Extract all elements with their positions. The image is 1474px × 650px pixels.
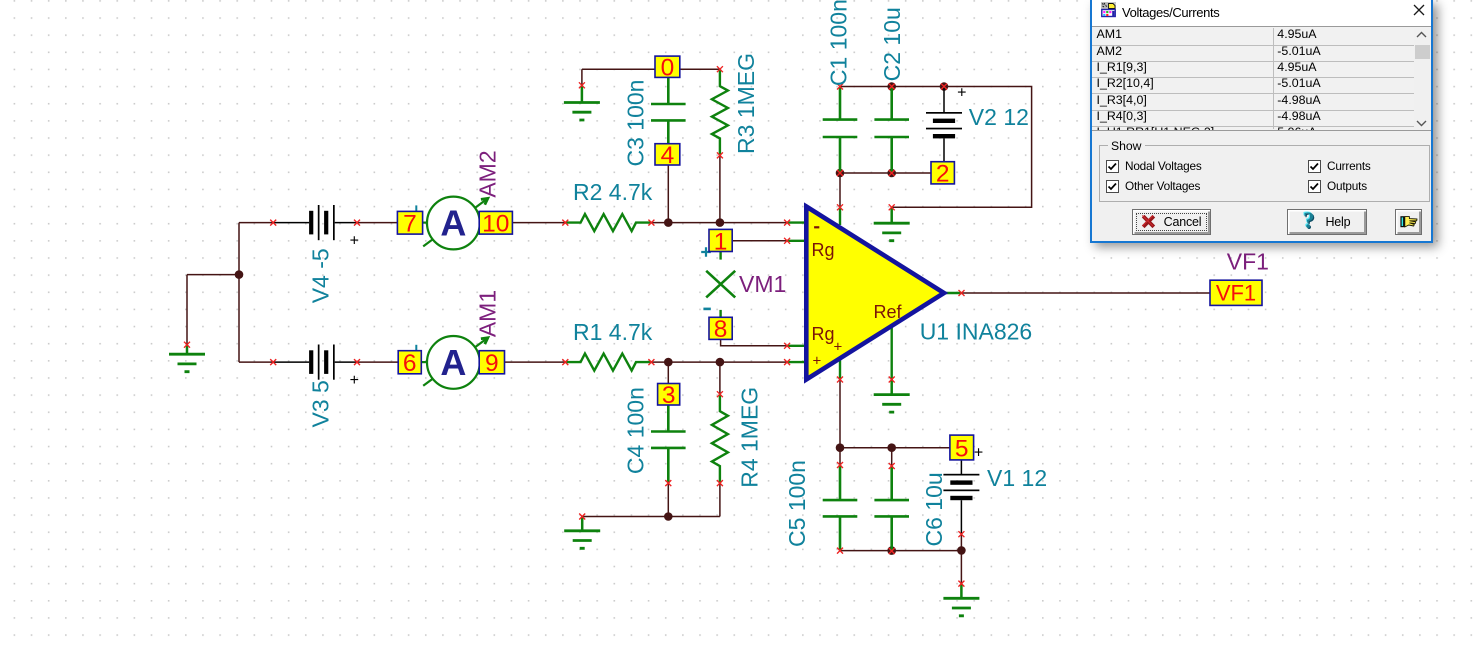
wire top row left (239, 222, 273, 224)
pin x C5 top (837, 462, 843, 468)
svg-text:9: 9 (485, 350, 499, 377)
checkbox Nodal Voltages (1106, 160, 1119, 173)
svg-text:8: 8 (714, 316, 728, 343)
pin x op-amp bottom supply (837, 377, 843, 383)
op-amp U1 INA826 triangle (806, 207, 944, 380)
pin x R2 right (648, 220, 654, 226)
svg-text:+: + (834, 339, 843, 356)
wire R1 to op-amp plus pin (651, 361, 787, 363)
junction R2/C3 node (664, 218, 673, 227)
op-amp plus pin stub (787, 361, 806, 363)
ammeter AM2 polarity tick (415, 205, 417, 211)
wire op-amp bottom supply down (839, 380, 841, 448)
pin x V3 left (270, 359, 276, 365)
pin x C6 bottom (889, 548, 895, 554)
svg-text:Ref: Ref (874, 302, 903, 322)
Cancel button (1132, 209, 1211, 235)
svg-text:A: A (440, 203, 466, 244)
svg-text:0: 0 (661, 55, 675, 82)
pin x op-amp output (959, 290, 965, 296)
pin x R3 bottom (717, 152, 723, 158)
wire box0 to left ground (582, 69, 655, 85)
svg-text:4: 4 (661, 142, 675, 169)
wire bottom row left (239, 361, 273, 363)
capacitor C3 (651, 77, 686, 143)
ground top right near op-amp (874, 207, 910, 240)
pin x R4 top (717, 391, 723, 397)
pin x C6 top (889, 463, 895, 469)
wire C5 stub (839, 448, 841, 465)
pin x op-amp Ref (889, 377, 895, 383)
node 3 box (658, 382, 680, 409)
wire box10 to R2 (512, 222, 565, 224)
voltage source V3 (273, 345, 357, 380)
pin x C1 top (837, 84, 843, 90)
checkbox Currents (1308, 160, 1321, 173)
op-amp output stub (944, 292, 962, 294)
svg-text:V4 -5: V4 -5 (308, 248, 334, 303)
junction supply rail C5 (836, 443, 845, 452)
pin x C2 bottom (889, 170, 895, 176)
pin x V2 plus (941, 84, 947, 90)
wire bottom-left rail (582, 516, 720, 518)
wire box9 to R1 (505, 361, 566, 363)
junction C1 bottom (836, 169, 845, 178)
ground left (169, 345, 205, 372)
pin x ground left (184, 342, 190, 348)
junction C6 bottom (887, 546, 896, 555)
voltmeter VM1 minus mark (703, 308, 710, 311)
node 2 box (931, 161, 954, 188)
dialog Voltages/Currents (1090, 0, 1433, 243)
ground below V1 (943, 584, 979, 616)
ammeter AM2 green stub (423, 222, 428, 224)
node 4 box (655, 142, 680, 169)
Help button (1287, 209, 1368, 235)
list scrollbar (1414, 28, 1430, 129)
voltage source V1 (943, 460, 979, 534)
wire mid rail to box2 (840, 172, 931, 174)
resistor R1 (565, 354, 651, 371)
voltmeter VM1 lead from box1 (719, 252, 721, 260)
pin x V1 bottom (958, 531, 964, 537)
op-amp Rg lower pin stub (787, 345, 806, 347)
wire node down to box3 (667, 362, 669, 383)
voltmeter VM1 cross symbol (706, 271, 735, 298)
pin x op-amp plus (784, 359, 790, 365)
wire C1 bottom to op-amp supply (839, 173, 841, 207)
svg-text:1: 1 (714, 228, 728, 255)
svg-text:C5 100n: C5 100n (784, 460, 810, 547)
wire top row battery to box7 (357, 222, 397, 224)
node 10 box (479, 211, 512, 238)
wire left vertical between rows (238, 223, 240, 363)
Show group box (1099, 145, 1430, 203)
op-amp top supply pin stub (839, 207, 841, 225)
pin x op-amp minus (784, 220, 790, 226)
wire bottom block rail (840, 550, 961, 552)
svg-text:6: 6 (403, 350, 417, 377)
svg-text:V3 5: V3 5 (308, 380, 334, 427)
dialog icon (1101, 2, 1117, 18)
svg-text:+: + (813, 353, 822, 370)
node 8 box (709, 316, 732, 343)
op-amp Ref pin stub (891, 324, 893, 380)
capacitor C2 (874, 88, 909, 174)
pin x V4 right (354, 220, 360, 226)
wire R4 to bottom rail (719, 483, 721, 516)
pin x V3 right (354, 359, 360, 365)
pin x C1 bottom (837, 170, 843, 176)
svg-text:+: + (350, 372, 359, 389)
capacitor C4 (651, 405, 686, 483)
wire node down to R4 (719, 362, 721, 394)
op-amp bottom supply pin stub (839, 360, 841, 380)
svg-text:+: + (957, 85, 966, 102)
node 0 box (655, 55, 680, 82)
svg-text:2: 2 (936, 161, 950, 188)
junction bottom-left rail (664, 512, 673, 521)
wire top supply rail (840, 87, 1032, 208)
wire box1 to op-amp Rg upper (732, 240, 787, 242)
svg-text:R3 1MEG: R3 1MEG (733, 53, 759, 154)
capacitor C5 (823, 465, 858, 551)
wire C4 to bottom rail (667, 483, 669, 516)
wire box4 down to node (667, 164, 669, 223)
dialog results list (1092, 26, 1431, 131)
svg-text:C6 10u: C6 10u (921, 472, 947, 546)
node 9 box (479, 350, 504, 377)
wire R2 to op-amp minus pin (651, 222, 787, 224)
svg-text:3: 3 (662, 382, 676, 409)
wire V1 bottom stubs (960, 534, 962, 583)
pin x ground top right (889, 204, 895, 210)
wire box0 to R3 top (680, 68, 720, 70)
svg-text:5: 5 (955, 435, 969, 462)
svg-text:C4 100n: C4 100n (623, 387, 649, 474)
svg-text:C1 100n: C1 100n (826, 0, 852, 86)
pin x op-amp Rg lower (784, 343, 790, 349)
svg-text:R1 4.7k: R1 4.7k (573, 319, 653, 345)
ground at op-amp Ref pin (874, 380, 910, 413)
capacitor C6 (874, 466, 909, 551)
pin x C2 top (889, 84, 895, 90)
ground bottom-left rail (564, 517, 600, 549)
wire op-amp output to VF1 (962, 292, 1211, 294)
pin x op-amp top supply (837, 204, 843, 210)
svg-text:U1 INA826: U1 INA826 (920, 319, 1033, 345)
voltmeter VM1 lead to box8 (719, 310, 721, 317)
junction R1/C4 node (664, 358, 673, 367)
svg-text:V2 12: V2 12 (969, 104, 1029, 130)
svg-text:VF1: VF1 (1216, 281, 1256, 306)
pin x C5 bottom (837, 548, 843, 554)
junction V2 plus (940, 82, 949, 91)
node 6 box (398, 350, 421, 377)
pin x ground V1 (958, 581, 964, 587)
wire C6 stub (891, 448, 893, 466)
junction left branch (235, 270, 244, 279)
voltage source V4 (273, 205, 357, 240)
junction R4 node (716, 358, 725, 367)
junction R3 node (716, 218, 725, 227)
ammeter AM1 green stub (421, 361, 427, 363)
pin x R3 top (717, 66, 723, 72)
ammeter AM1 polarity tick (415, 345, 417, 351)
svg-text:Rg: Rg (812, 240, 835, 260)
ground near box0 (564, 85, 600, 120)
pin x R2 left (562, 220, 568, 226)
dialog close button (1412, 3, 1426, 17)
node 5 box (950, 435, 974, 462)
wire R3 down to node (719, 155, 721, 222)
output VF1 box (1210, 280, 1262, 306)
svg-text:AM2: AM2 (475, 150, 501, 197)
svg-text:VF1: VF1 (1227, 249, 1269, 275)
op-amp minus pin stub (787, 221, 806, 223)
junction V1 bottom (957, 546, 966, 555)
junction C2 top (887, 82, 896, 91)
pin x R1 left (562, 359, 568, 365)
ammeter AM1 (423, 336, 488, 389)
pin x ground box0 (579, 82, 585, 88)
pin x R1 right (648, 359, 654, 365)
op-amp Rg upper pin stub (787, 240, 806, 242)
svg-text:10: 10 (482, 211, 509, 238)
op-amp minus pin label (814, 226, 819, 228)
svg-text:C2 10u: C2 10u (879, 7, 905, 81)
svg-text:A: A (440, 342, 466, 383)
capacitor C1 (823, 88, 858, 174)
svg-text:R4 1MEG: R4 1MEG (736, 387, 762, 488)
pin x R4 bottom (717, 480, 723, 486)
pin x op-amp Rg upper (784, 238, 790, 244)
resistor R2 (565, 214, 651, 231)
dialog title bar (1092, 0, 1431, 26)
svg-text:V1 12: V1 12 (987, 465, 1047, 491)
checkbox Other Voltages (1106, 180, 1119, 193)
svg-text:R2 4.7k: R2 4.7k (573, 179, 653, 205)
junction C2 bottom (887, 169, 896, 178)
wire lower supply rail to box5 (840, 447, 950, 449)
resistor R3 (712, 69, 728, 155)
pin x ground bottom rail (579, 514, 585, 520)
svg-text:7: 7 (403, 211, 417, 238)
hand button (1395, 209, 1422, 235)
wire left ground vertical (186, 275, 188, 345)
node 7 box (397, 211, 422, 238)
node 1 box (709, 228, 732, 255)
svg-text:C3 100n: C3 100n (622, 80, 648, 167)
ammeter AM2 (423, 197, 488, 250)
svg-text:Rg: Rg (812, 324, 835, 344)
junction supply rail C6 (887, 443, 896, 452)
svg-text:+: + (974, 444, 983, 461)
wire bottom battery to box6 (357, 361, 398, 363)
svg-text:VM1: VM1 (739, 271, 786, 297)
voltage source V2 (926, 87, 962, 162)
resistor R4 (712, 394, 728, 483)
pin x V4 left (270, 220, 276, 226)
pin x C4 bottom (665, 480, 671, 486)
wire box8 to op-amp Rg lower (721, 339, 788, 345)
svg-text:+: + (350, 233, 359, 250)
checkbox Outputs (1308, 180, 1321, 193)
wire junction to left ground horizontal (187, 274, 239, 276)
voltmeter VM1 plus mark (701, 247, 711, 257)
svg-text:AM1: AM1 (475, 290, 501, 337)
